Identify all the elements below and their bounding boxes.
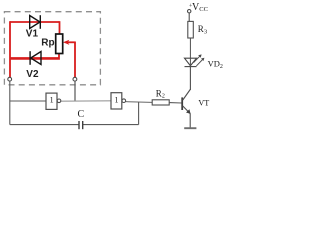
wire: feedback vertical at right of gate2 xyxy=(138,102,140,125)
svg-text:1: 1 xyxy=(50,96,54,105)
potentiometer Rp body xyxy=(56,34,63,54)
svg-text:C: C xyxy=(78,109,85,120)
svg-text:VT: VT xyxy=(198,99,209,108)
wire: gate1 output to gate2 input xyxy=(61,100,111,102)
resistor R2 xyxy=(152,100,169,105)
diode V1 xyxy=(30,15,41,29)
wire: wiper node vertical to logic row xyxy=(74,81,76,101)
svg-text:V2: V2 xyxy=(26,69,39,80)
wire: emitter down xyxy=(189,113,191,127)
dashed enclosure box xyxy=(4,12,100,85)
svg-text:V1: V1 xyxy=(26,29,39,40)
inverter gate U2 xyxy=(111,93,122,109)
wire: collector up xyxy=(189,67,191,90)
wire: red wiper horizontal with arrow into Rp xyxy=(66,41,76,43)
wire: R3 bottom through LED to collector xyxy=(189,38,191,67)
wire: gray left vertical below node xyxy=(9,81,11,124)
wire: red Rp bottom lead xyxy=(10,53,59,59)
ground bar xyxy=(184,127,196,129)
wire: red top branch through V1 xyxy=(10,21,60,23)
svg-text:1: 1 xyxy=(115,96,119,105)
node terminal circle left xyxy=(8,77,12,81)
wire: red V2 row to Rp bottom xyxy=(10,57,59,59)
wire: gate1 input xyxy=(10,100,46,102)
transistor VT xyxy=(181,97,183,110)
diode V2 xyxy=(30,51,41,65)
Vcc terminal xyxy=(188,10,191,13)
capacitor C plates xyxy=(78,121,80,129)
wire: R2 to base xyxy=(169,102,181,104)
node terminal circle wiper xyxy=(73,77,77,81)
wire: red Rp top lead xyxy=(59,21,61,34)
wire: red wiper branch down xyxy=(74,42,76,77)
LED arrows xyxy=(194,56,201,63)
resistor R3 xyxy=(188,21,194,38)
wire: bottom feedback row right of C xyxy=(83,124,139,126)
inverter gate U1 xyxy=(46,93,57,109)
svg-text:Rp: Rp xyxy=(41,38,54,49)
wire: bottom feedback row left of C xyxy=(10,124,79,126)
LED VD2 xyxy=(185,58,197,66)
wire: red left vertical xyxy=(9,21,11,77)
wire: gate2 output to R2 xyxy=(125,101,152,104)
